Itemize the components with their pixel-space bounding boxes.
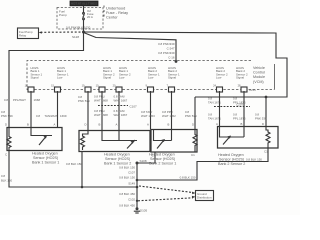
svg-text:Low: Low (216, 76, 222, 80)
svg-text:PNK 539: PNK 539 (1, 114, 13, 118)
svg-text:WHT 1553: WHT 1553 (141, 114, 155, 118)
svg-text:C: C (5, 153, 8, 157)
label 0.8 BLK 150 (1, 174, 12, 183)
wire heater feed sensor4 (265, 97, 267, 127)
svg-text:Heated Oxygen: Heated Oxygen (218, 153, 244, 157)
svg-text:1669: 1669 (60, 114, 67, 118)
svg-text:A: A (54, 123, 56, 127)
svg-text:C107: C107 (130, 105, 138, 109)
svg-text:S108: S108 (140, 159, 147, 163)
sensor box4 HO2S B2S2 (218, 127, 279, 149)
splice S108 (136, 162, 139, 165)
label Vehicle Control Module (VCM) (253, 66, 265, 84)
svg-text:Module: Module (253, 75, 265, 79)
svg-text:0.8: 0.8 (1, 174, 5, 178)
svg-text:D: D (192, 123, 194, 127)
svg-text:BLK 150: BLK 150 (1, 179, 12, 183)
pin letters sensor2 (85, 123, 118, 127)
svg-text:Pump: Pump (59, 13, 67, 17)
svg-text:C1: C1 (264, 150, 268, 154)
svg-text:0.8 BLK 150: 0.8 BLK 150 (119, 166, 135, 170)
wire ignition feed to VCM pin (84, 33, 177, 62)
svg-text:Low: Low (57, 76, 63, 80)
svg-text:D: D (5, 123, 7, 127)
text Fuel Pump inside fuse box (59, 10, 67, 18)
svg-text:C-247: C-247 (167, 47, 175, 51)
ground wire sensor4 (137, 148, 268, 180)
heater element box4 (266, 127, 270, 148)
wire HO2S B1S1 signal (30, 91, 32, 128)
wire heater feed sensor2 (87, 91, 89, 131)
ground wire sensor2 (81, 152, 83, 188)
label 0.8 PNK 539 (1, 110, 13, 118)
wire signal sensor3 (171, 91, 173, 130)
svg-text:0.8 BLK 150: 0.8 BLK 150 (66, 162, 82, 166)
svg-text:C1: C1 (191, 153, 195, 157)
svg-text:0.8 PNK/339: 0.8 PNK/339 (158, 42, 175, 46)
svg-text:G105: G105 (140, 209, 148, 213)
label Heated Oxygen Sensor box4 (218, 153, 245, 166)
wire low sensor4 (219, 91, 221, 127)
heater element box2 (81, 131, 89, 151)
VCM internal signal names (31, 66, 248, 80)
wire low sensor2 (118, 91, 120, 131)
svg-text:S128: S128 (72, 35, 79, 39)
svg-text:TAN/WHT: TAN/WHT (45, 114, 58, 118)
wire PNK 539 feed to sensor1 heater (9, 32, 84, 128)
ground distribution reference box (196, 191, 214, 201)
svg-text:Signal: Signal (236, 76, 244, 80)
sensor element box3 (154, 130, 172, 149)
svg-text:Heated Oxygen: Heated Oxygen (149, 153, 175, 157)
svg-text:Bank 2 Sensor 1: Bank 2 Sensor 1 (149, 162, 176, 166)
heater element box3 (193, 130, 197, 152)
svg-text:WHT 1668: WHT 1668 (94, 99, 108, 103)
VCM box (dashed) (27, 61, 275, 90)
wire fuse to splice (83, 20, 85, 32)
svg-text:1668: 1668 (34, 98, 41, 102)
label 0.8 PPL/WHT 1668 (4, 98, 40, 102)
svg-text:WHT 1667: WHT 1667 (114, 99, 128, 103)
svg-text:0.8 BLK 450: 0.8 BLK 450 (119, 204, 135, 208)
svg-text:PPL/WHT: PPL/WHT (13, 98, 26, 102)
svg-text:Heated Oxygen: Heated Oxygen (32, 152, 58, 156)
fuel pump relay reference box (18, 28, 39, 39)
svg-text:Signal: Signal (168, 76, 176, 80)
sensor box3 HO2S B2S1 (151, 130, 197, 153)
ground wire sensor1 (9, 151, 137, 188)
svg-text:PNK 539: PNK 539 (255, 117, 267, 121)
svg-text:Control: Control (253, 71, 265, 75)
svg-text:Sensor (HO2S): Sensor (HO2S) (150, 157, 175, 161)
pin letters sensor4 (216, 122, 264, 126)
svg-text:0.8 BLK 150: 0.8 BLK 150 (119, 176, 135, 180)
spine labels (119, 166, 135, 208)
svg-text:Relay: Relay (19, 34, 27, 38)
svg-text:B: B (241, 122, 243, 126)
wire signal sensor2 (101, 91, 103, 131)
svg-text:Vehicle: Vehicle (253, 66, 265, 70)
ground symbol G108 (134, 207, 140, 213)
wire PNK 539 main rail top (84, 32, 288, 97)
svg-text:WHT 1667: WHT 1667 (114, 113, 128, 117)
svg-text:A: A (216, 122, 218, 126)
labels sensor4 wires lower (208, 113, 267, 121)
svg-text:S149: S149 (128, 182, 135, 186)
label Heated Oxygen Sensor box1 (32, 152, 59, 165)
pin dot on VCM top (175, 60, 178, 63)
labels sensor4 wires upper (208, 97, 246, 105)
label Heated Oxygen Sensor box3 (149, 153, 176, 166)
svg-text:0.8: 0.8 (36, 114, 40, 118)
wire heater feed sensor3 from rail (194, 97, 196, 130)
connector C107 crossing (98, 105, 128, 107)
pin letters sensor3 (147, 123, 194, 127)
wire low sensor3 (150, 91, 152, 130)
labels sensor2 wires upper (94, 95, 128, 103)
wire signal sensor4 (243, 91, 245, 127)
svg-text:0.8: 0.8 (4, 98, 8, 102)
dashed reference arrows to ground distribution (138, 186, 196, 201)
junction dots spine (136, 179, 139, 182)
sensor element box2 (102, 131, 137, 149)
svg-text:B: B (27, 123, 29, 127)
svg-text:(VCM): (VCM) (253, 80, 264, 84)
svg-text:Bank 1 Sensor 1: Bank 1 Sensor 1 (32, 161, 59, 165)
svg-text:Signal: Signal (31, 76, 39, 80)
VCM bottom pins (28, 87, 247, 92)
svg-text:PPL 1876: PPL 1876 (233, 117, 246, 121)
svg-text:Distribution: Distribution (197, 196, 212, 200)
svg-text:Sensor (HO2S): Sensor (HO2S) (33, 156, 58, 160)
label Heated Oxygen Sensor box2 (104, 153, 131, 166)
svg-text:WHT 1668: WHT 1668 (94, 113, 108, 117)
svg-text:C102: C102 (128, 198, 135, 202)
svg-text:B: B (99, 123, 101, 127)
svg-text:0.8 PNK/BLK 1020: 0.8 PNK/BLK 1020 (66, 26, 91, 30)
dashed wire to fuel pump relay with arrow (39, 31, 82, 33)
wire HO2S B1S1 low (57, 91, 59, 128)
svg-text:A: A (116, 123, 118, 127)
svg-text:D: D (85, 123, 87, 127)
sensor element box4 (220, 127, 245, 145)
label 0.8 TAN/WHT 1669 (36, 114, 67, 118)
svg-text:B: B (168, 123, 170, 127)
svg-text:WHT 1552: WHT 1552 (162, 114, 176, 118)
svg-text:TAN 1671: TAN 1671 (208, 101, 221, 105)
connector C207 crossing (214, 106, 250, 108)
svg-text:TAN 1671: TAN 1671 (208, 117, 221, 121)
svg-text:D: D (262, 122, 264, 126)
svg-text:Low: Low (148, 76, 154, 80)
svg-text:Center: Center (106, 15, 118, 20)
svg-text:0.8 BLK 150: 0.8 BLK 150 (180, 176, 196, 180)
ground wire sensor3 (137, 152, 155, 163)
svg-text:Low: Low (119, 76, 125, 80)
svg-text:C107: C107 (128, 171, 135, 175)
svg-text:PNK 539: PNK 539 (78, 99, 90, 103)
fuse O2 SNSR 20 A (83, 9, 94, 20)
pin numbers (25, 84, 241, 88)
svg-text:Sensor (HO2S): Sensor (HO2S) (219, 158, 244, 162)
sensor box1 HO2S B1S1 (7, 128, 62, 151)
junction dot heater rail sensor4 (265, 96, 268, 99)
labels sensor2 wires lower (94, 109, 128, 117)
wire banner to fuse (83, 6, 85, 13)
labels sensor3 wires (141, 110, 197, 118)
svg-text:20 A: 20 A (87, 15, 93, 19)
svg-text:Heated Oxygen: Heated Oxygen (104, 153, 130, 157)
svg-text:PNK 539: PNK 539 (185, 114, 197, 118)
sensor box2 HO2S B1S2 (79, 131, 150, 152)
svg-text:C2xx: C2xx (249, 88, 256, 92)
power banner HOT AT ALL TIMES (70, 1, 98, 6)
svg-text:A: A (147, 123, 149, 127)
label Underhood Fuse-Relay Center (106, 6, 128, 20)
svg-text:C207: C207 (236, 103, 244, 107)
ground spine (136, 163, 138, 209)
svg-text:0.8 BLK 150: 0.8 BLK 150 (246, 158, 262, 162)
svg-text:Bank 2 Sensor 2: Bank 2 Sensor 2 (218, 162, 245, 166)
underhood fuse-relay center box (dashed) (57, 8, 103, 30)
svg-text:C-16: C-16 (168, 56, 175, 60)
svg-text:0.8 BLK 450: 0.8 BLK 450 (119, 192, 135, 196)
svg-text:Signal: Signal (103, 76, 111, 80)
svg-text:HOT AT ALL TIMES: HOT AT ALL TIMES (71, 2, 97, 6)
sensor element box1 (31, 128, 52, 146)
svg-text:0.8 PNK/339: 0.8 PNK/339 (158, 51, 175, 55)
svg-text:Sensor (HO2S): Sensor (HO2S) (105, 157, 130, 161)
splice S128 (82, 31, 85, 34)
heater element box1 (7, 128, 11, 151)
labels 0.8 PNK 439 / C100 (158, 42, 175, 60)
pin letters sensor1 (5, 123, 56, 127)
